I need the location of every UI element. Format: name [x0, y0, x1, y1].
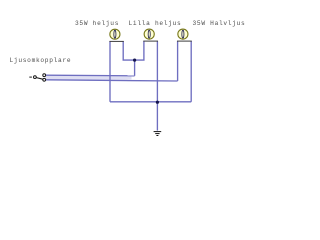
svg-text:35W heljus: 35W heljus — [75, 20, 119, 27]
svg-text:35W Halvljus: 35W Halvljus — [193, 20, 246, 27]
svg-text:Ljusomkopplare: Ljusomkopplare — [10, 57, 72, 64]
svg-text:Lilla heljus: Lilla heljus — [129, 20, 182, 27]
